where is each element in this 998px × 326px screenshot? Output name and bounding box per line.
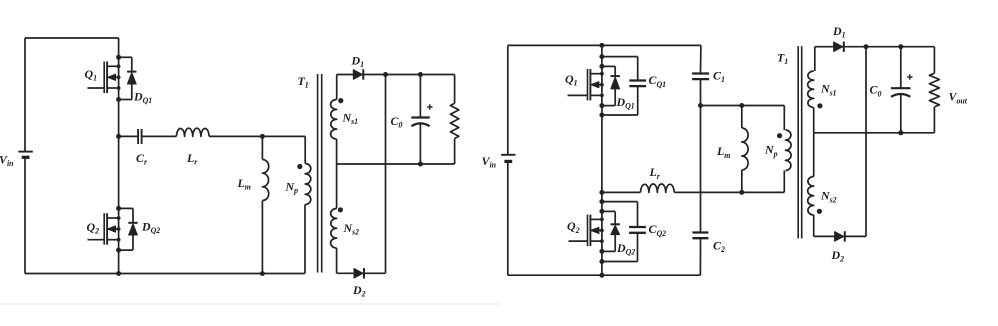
wire center tap (right) xyxy=(814,132,935,134)
resistor load (left) xyxy=(450,75,458,165)
node DQ2 bottom junction (right) xyxy=(599,249,604,254)
node Lm bottom junction (right) xyxy=(739,190,744,195)
node CQ2 bottom junction xyxy=(599,259,604,264)
label DQ2 xyxy=(141,220,160,236)
node CQ2 top junction xyxy=(599,199,604,204)
wire midpoint to Lr (right) xyxy=(602,191,641,193)
diode DQ2 body diode (right) xyxy=(611,224,620,234)
label C0 (right) xyxy=(870,83,882,99)
label Ns1 (right) xyxy=(820,82,837,98)
label CQ1 xyxy=(649,73,667,89)
capacitor Cr xyxy=(138,129,142,144)
capacitor C2 xyxy=(692,233,708,239)
label Q1 (left) xyxy=(85,67,98,83)
transformer T1 core (right) xyxy=(798,46,802,238)
wire DQ2 branch (right) xyxy=(602,211,615,251)
inductor Lm (right) xyxy=(742,106,748,193)
label Np (right) xyxy=(764,143,778,159)
diode D1 (left) xyxy=(353,69,363,79)
faint scan edge xyxy=(0,303,500,305)
plus sign C0 (left) xyxy=(427,104,433,110)
node Lm top junction (left) xyxy=(260,134,265,139)
node DQ1 bottom junction (right) xyxy=(599,103,604,108)
node C0 top junction (left) xyxy=(418,72,423,77)
label Lr (left) xyxy=(186,151,198,167)
wire top rail left circuit xyxy=(25,37,119,39)
label D1 (left) xyxy=(351,54,365,70)
node C0 bottom junction (right) xyxy=(898,130,903,135)
node Lm bottom junction (left) xyxy=(260,271,265,276)
winding Np (right) xyxy=(784,106,791,193)
label D2 (left) xyxy=(352,283,366,299)
wire DQ1 branch (right) xyxy=(602,66,615,105)
winding Ns1 (left) xyxy=(331,75,337,165)
capacitor C0 (right) xyxy=(891,47,911,133)
label Q1 (right) xyxy=(565,72,578,88)
label T1 (left) xyxy=(298,74,309,90)
node CQ1 top junction xyxy=(599,54,604,59)
transistor Q2 (right) xyxy=(569,215,604,247)
node Q2 source bottom (right) xyxy=(599,273,604,278)
wire CQ1 branch xyxy=(602,57,638,115)
plus sign C0 (right) xyxy=(907,74,913,80)
capacitor CQ2 xyxy=(629,227,646,233)
node DQ2 bottom junction xyxy=(116,248,121,253)
node CQ1 bottom junction xyxy=(599,113,604,118)
battery Vin (left) xyxy=(18,152,32,158)
wire Lr to tank (right) xyxy=(674,191,784,193)
label T1 (right) xyxy=(777,51,788,67)
node Np polarity dot (left) xyxy=(297,164,302,169)
wire left vertical to battery xyxy=(24,38,26,151)
label C2 xyxy=(713,238,725,254)
node bridge midpoint (left) xyxy=(116,134,121,139)
wire bridge vertical right xyxy=(601,45,603,275)
wire battery to bottom rail (right) xyxy=(507,161,509,275)
battery Vin (right) xyxy=(501,155,515,162)
wire D2 bottom (right) xyxy=(814,235,866,237)
capacitor CQ1 xyxy=(629,81,646,87)
wire bottom rail right circuit xyxy=(508,274,701,276)
wire tank top (right) xyxy=(701,105,785,107)
transistor Q2 (left) xyxy=(88,213,121,245)
inductor Lr (left) xyxy=(176,128,209,136)
diode D1 (right) xyxy=(834,42,844,52)
diode D2 (right) xyxy=(835,231,845,241)
wire DQ1 branch xyxy=(119,57,132,99)
label Lm (right) xyxy=(716,144,730,160)
wire secondary top rail (right) xyxy=(815,46,935,48)
label Ns1 (left) xyxy=(342,111,359,127)
node D2 return top junction xyxy=(864,44,869,49)
node Np polarity dot (right) xyxy=(777,133,782,138)
label C0 (left) xyxy=(391,114,403,130)
capacitor C1 xyxy=(692,74,709,80)
label Lm (left) xyxy=(237,176,251,192)
wire secondary top rail (left) xyxy=(337,74,455,76)
label Cr xyxy=(136,151,148,167)
node DQ1 top junction xyxy=(116,55,121,60)
node DQ2 top junction (right) xyxy=(599,209,604,214)
junction Q2 source at bottom rail xyxy=(116,271,121,276)
label Vin (right) xyxy=(482,154,497,170)
wire center tap (left) xyxy=(337,163,455,165)
diode DQ2 body diode xyxy=(128,223,137,235)
wire top rail right circuit xyxy=(508,44,701,46)
transistor Q1 (left) xyxy=(88,62,121,94)
node DQ1 top junction (right) xyxy=(599,64,604,69)
label Np (left) xyxy=(285,179,299,195)
label Q2 (right) xyxy=(567,219,580,235)
winding Ns2 (right) xyxy=(808,133,814,237)
wire bridge vertical left xyxy=(118,38,120,274)
wire D2 return vertical (left) xyxy=(385,75,387,274)
node C0 top junction (right) xyxy=(898,44,903,49)
wire CQ2 branch xyxy=(602,202,638,262)
label Lr (right) xyxy=(649,165,661,181)
node Ns2 polarity dot (left) xyxy=(338,207,343,212)
wire bottom rail left circuit xyxy=(25,273,305,275)
wire battery to bottom rail xyxy=(24,157,26,273)
node Ns2 polarity dot (right) xyxy=(817,209,822,214)
label DQ1 (right) xyxy=(616,95,635,111)
wire D2 return vertical (right) xyxy=(865,47,867,237)
node DQ2 top junction xyxy=(116,206,121,211)
node Q1 drain top (right) xyxy=(599,43,604,48)
node C1 bottom to tank junction xyxy=(698,103,703,108)
node bridge midpoint (right) xyxy=(599,190,604,195)
node DQ1 bottom junction xyxy=(116,97,121,102)
label Q2 (left) xyxy=(87,220,100,236)
transistor Q1 (right) xyxy=(568,69,604,101)
node Ns1 polarity dot (right) xyxy=(817,103,822,108)
diode D2 (left) xyxy=(354,268,364,278)
label D2 (right) xyxy=(831,248,845,264)
capacitor C0 (left) xyxy=(411,75,430,165)
wire midpoint to Cr xyxy=(119,135,138,137)
capacitor C1 branch wire xyxy=(699,45,702,275)
diode DQ1 body diode xyxy=(127,72,136,84)
winding Ns2 (left) xyxy=(331,164,337,273)
transformer T1 core (left) xyxy=(318,74,322,273)
label Vin (left) xyxy=(0,153,14,169)
label CQ2 xyxy=(649,222,667,238)
label D1 (right) xyxy=(832,24,846,40)
node D1 rail junction xyxy=(383,72,388,77)
label DQ2 (right) xyxy=(616,241,635,257)
node Ns1 polarity dot (left) xyxy=(338,98,343,103)
inductor Lm (left) xyxy=(262,136,268,273)
wire left vertical to battery (right) xyxy=(507,45,509,154)
label Ns2 (right) xyxy=(820,189,837,205)
winding Np (left) xyxy=(305,136,311,273)
label Vout xyxy=(949,90,968,106)
wire DQ2 branch xyxy=(119,208,133,250)
resistor load Vout xyxy=(929,47,939,133)
winding Ns1 (right) xyxy=(808,47,815,133)
node C0 bottom junction (left) xyxy=(418,162,423,167)
inductor Lr (right) xyxy=(641,184,675,192)
label DQ1 xyxy=(133,90,152,106)
diode DQ1 body diode (right) xyxy=(611,76,620,89)
wire Cr to Lr xyxy=(143,135,177,137)
node Lm top junction (right) xyxy=(739,103,744,108)
label Ns2 (left) xyxy=(343,221,360,237)
wire D2 bottom (left) xyxy=(337,272,386,274)
wire Lr to Np xyxy=(209,135,305,137)
label C1 xyxy=(713,69,725,85)
